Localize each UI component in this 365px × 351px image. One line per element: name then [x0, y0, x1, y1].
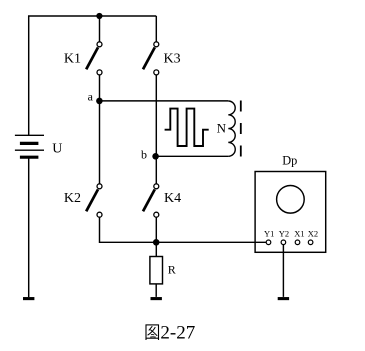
- svg-text:N: N: [217, 121, 227, 136]
- svg-text:K2: K2: [64, 191, 81, 206]
- svg-text:X1: X1: [294, 229, 304, 239]
- svg-text:K1: K1: [64, 52, 81, 67]
- svg-text:Dp: Dp: [282, 154, 297, 168]
- svg-text:K4: K4: [164, 191, 181, 206]
- svg-text:b: b: [141, 147, 147, 161]
- svg-text:R: R: [168, 263, 176, 277]
- svg-text:K3: K3: [164, 52, 181, 67]
- svg-text:U: U: [52, 142, 62, 157]
- svg-text:Y1: Y1: [264, 229, 274, 239]
- svg-text:X2: X2: [308, 229, 318, 239]
- svg-text:a: a: [88, 90, 94, 104]
- svg-text:Y2: Y2: [279, 229, 289, 239]
- svg-text:2-27: 2-27: [160, 322, 195, 343]
